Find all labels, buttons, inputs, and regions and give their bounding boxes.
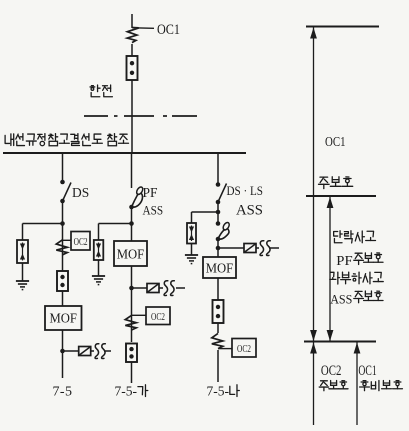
svg-text:PF: PF <box>143 186 158 201</box>
wire: incoming service line from KEPCO <box>131 14 133 28</box>
disconnect switch DS-LS blade <box>218 184 227 203</box>
wire: meter tap (middle) <box>132 287 148 289</box>
svg-text:OC2: OC2 <box>237 344 251 355</box>
node: DS-LS upper contact <box>216 182 221 187</box>
MOF metering outfit (right feeder) <box>203 257 236 278</box>
power fuse PF (cut-out loop symbol) <box>129 205 134 210</box>
label 주보호 (OC2 main protection) <box>321 380 328 382</box>
wire: MOF down to customer 7-5-가 <box>131 266 133 342</box>
node: junction to meter tap (right) <box>216 246 221 251</box>
relay box OC2 (right feeder) <box>232 339 256 358</box>
svg-text:DS · LS: DS · LS <box>227 183 264 198</box>
svg-text:ASS: ASS <box>236 203 263 219</box>
node: DS lower contact <box>60 199 65 204</box>
dimension line C: OC2 main-protection zone (up arrow) <box>313 342 315 425</box>
CT metering unit on incomer (box with two dots) <box>127 56 138 80</box>
label 단락사고 (short-circuit fault) <box>334 231 338 236</box>
wire: left feeder drop from bus <box>62 153 64 181</box>
node: DS-LS lower contact <box>216 200 221 205</box>
line break symbol (continues) <box>95 344 99 359</box>
wire: CB to MOF <box>62 291 64 306</box>
note 내선규정참고결선도 참조 (refer to internal wiring standard diagram) <box>5 135 10 143</box>
node: junction to meter tap (middle) <box>129 286 134 291</box>
label 한전 (KEPCO) <box>91 85 93 87</box>
leader line to OC1 label <box>139 27 154 29</box>
wire: MOF to CB (right) <box>217 278 219 300</box>
leader from coil to OC2 relay box <box>63 239 72 241</box>
MOF metering outfit (middle feeder) <box>114 241 147 266</box>
dimension: bottom reference bar <box>304 341 376 343</box>
wire: meter tap (right) <box>218 247 244 249</box>
ground: LA3 earth <box>185 254 198 256</box>
dimension: middle reference bar <box>306 195 376 197</box>
relay OC1 coil (zigzag) on incomer <box>127 28 139 43</box>
wire: right feeder drop from bus <box>217 153 219 184</box>
node: DS upper contact <box>60 180 65 185</box>
wire: LA3 to earth <box>191 244 193 256</box>
svg-text:OC2: OC2 <box>321 363 342 379</box>
dimension line D: OC1 backup-protection zone (up arrow) <box>356 342 358 425</box>
node: LS fuse upper contact <box>216 221 221 226</box>
node: junction to meter tap <box>60 349 65 354</box>
wire: LA2 to earth <box>98 260 100 276</box>
dimension: top reference bar <box>306 26 379 28</box>
svg-text:OC1: OC1 <box>157 22 180 38</box>
node: LS fuse lower contact <box>216 237 221 242</box>
svg-text:DS: DS <box>72 186 89 201</box>
node: junction to arrester tap (right) <box>216 210 221 215</box>
svg-text:MOF: MOF <box>49 312 77 327</box>
wire: LA1 to earth <box>22 263 24 281</box>
disconnect switch DS blade <box>63 183 72 202</box>
lightning arrester LA1 <box>17 240 28 263</box>
wire: middle feeder below PF <box>131 207 133 241</box>
metering point symbol (right) <box>244 244 256 253</box>
ground: LA1 earth <box>16 280 29 282</box>
wire: incomer from CT to bus <box>131 80 133 153</box>
svg-text:PF: PF <box>336 254 353 269</box>
relay box OC2 (left feeder) <box>71 232 90 251</box>
wire: left feeder below DS <box>62 201 64 271</box>
leader from coil to OC2 relay box (middle) <box>132 314 147 316</box>
svg-text:OC1: OC1 <box>325 135 346 150</box>
leader from coil to OC2 relay box (right) <box>218 348 232 350</box>
label 과부하사고 (overload fault) <box>330 272 334 276</box>
ground: LA2 earth <box>92 275 105 277</box>
wire: MOF to customer 7-5 <box>62 330 64 378</box>
load-break switch LS (loop symbol) <box>222 221 231 231</box>
svg-text:OC2: OC2 <box>151 312 165 323</box>
svg-text:MOF: MOF <box>206 262 234 277</box>
lightning arrester LA2 <box>94 240 104 260</box>
svg-text:7-5: 7-5 <box>53 385 73 400</box>
relay box OC2 (middle feeder) <box>146 307 170 325</box>
line break symbol (middle) <box>164 281 168 296</box>
label 후비보호 (backup protection) <box>363 380 366 382</box>
svg-text:7-5-: 7-5- <box>207 384 230 399</box>
property boundary dash-dot line <box>84 115 108 117</box>
wire: to customer 7-5-가 <box>131 362 133 383</box>
dimension line B: PF/ASS protection zone (double arrow) <box>329 197 331 342</box>
relay OC2 coil (zigzag) on right feeder <box>212 333 223 348</box>
breaker CB (box with two dots) on left feeder <box>57 271 68 291</box>
node: junction to arrester tap (middle) <box>129 221 134 226</box>
wire: tap to lightning arrester LA2 <box>99 223 132 225</box>
svg-text:OC2: OC2 <box>74 237 88 248</box>
breaker CB (right feeder) <box>213 300 224 323</box>
breaker CB (middle feeder) <box>126 344 137 363</box>
MOF metering outfit (left feeder) <box>45 306 82 330</box>
wire: CB to OC2 coil (right) <box>217 323 219 333</box>
metering point symbol (box with diagonal) <box>79 347 91 356</box>
dimension line A: OC1 protection zone (double arrow) <box>313 27 315 342</box>
relay OC2 coil (zigzag) on middle feeder <box>125 315 136 330</box>
wire: tap to lightning arrester LA1 <box>23 223 63 225</box>
wire: right feeder below DS-LS <box>217 202 219 223</box>
svg-text:MOF: MOF <box>117 248 145 263</box>
wire: to customer 7-5-나 <box>217 350 219 382</box>
wire: tap to lightning arrester LA3 <box>192 211 219 213</box>
line break symbol (right) <box>260 241 264 256</box>
svg-text:ASS: ASS <box>143 203 164 218</box>
wire: meter tap with termination <box>63 350 80 352</box>
svg-text:ASS: ASS <box>330 292 352 306</box>
main distribution bus <box>3 152 246 154</box>
node: junction to arrester tap <box>60 221 65 226</box>
metering point symbol (middle) <box>147 284 159 293</box>
wire: right feeder to MOF <box>217 239 219 257</box>
lightning arrester LA3 <box>187 223 196 244</box>
svg-text:7-5-: 7-5- <box>115 384 138 399</box>
relay OC2 coil (zigzag) on left feeder <box>56 240 67 255</box>
wire: middle feeder drop from bus <box>131 153 133 188</box>
wire: incomer between OC1 and CT <box>131 44 133 56</box>
label 주보호 (main protection) <box>320 176 328 178</box>
svg-text:OC1: OC1 <box>358 363 376 379</box>
